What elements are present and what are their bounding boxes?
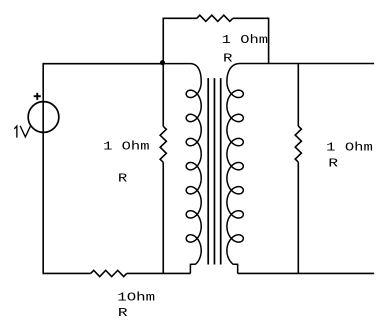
svg-text:R: R <box>118 306 128 320</box>
svg-text:1 Ohm: 1 Ohm <box>222 33 268 47</box>
svg-text:1 Ohm: 1 Ohm <box>103 140 149 154</box>
svg-text:R: R <box>118 172 128 186</box>
svg-text:R: R <box>328 157 339 171</box>
svg-text:1Ohm: 1Ohm <box>117 291 155 305</box>
svg-text:1 Ohm: 1 Ohm <box>326 141 373 155</box>
svg-text:R: R <box>223 52 233 66</box>
